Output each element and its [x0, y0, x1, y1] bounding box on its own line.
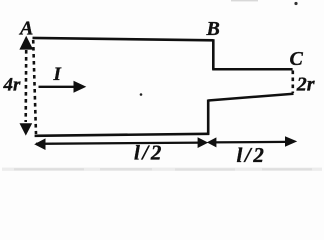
scan streak band bottom [2, 168, 322, 171]
wire: dashed left end face at A [33, 40, 36, 134]
svg-text:4r: 4r [3, 75, 22, 96]
wire: narrow-section top edge B to C [212, 68, 292, 71]
wire: step-down vertical at B [212, 39, 215, 69]
svg-text:l/2: l/2 [237, 143, 267, 167]
current arrow I head [74, 81, 87, 93]
4r dimension dashed line [24, 50, 27, 122]
stray dot (scan artifact) top right [294, 2, 297, 5]
svg-text:C: C [290, 48, 304, 70]
svg-text:I: I [53, 64, 62, 85]
svg-text:B: B [206, 18, 220, 40]
l/2 dimension right, right arrowhead [285, 136, 297, 147]
wire: step-up vertical (bottom) [207, 100, 210, 135]
4r dimension up arrowhead [19, 36, 33, 50]
svg-text:l/2: l/2 [134, 141, 164, 165]
l/2 dimension left, right arrowhead [198, 137, 209, 148]
current arrow I shaft [39, 86, 76, 88]
l/2 dimension left, left arrowhead [34, 138, 45, 150]
l/2 dimension right, left arrowhead [207, 137, 217, 147]
scan smudge top edge [231, 0, 258, 1]
svg-text:2r: 2r [296, 74, 315, 96]
4r dimension down arrowhead [20, 123, 33, 135]
wire: bottom edge of wide section [35, 134, 210, 136]
l/2 dimension right shaft [210, 141, 286, 144]
stray dot (scan artifact) mid figure [140, 93, 143, 96]
l/2 dimension left shaft [36, 143, 206, 144]
wire: narrow-section bottom edge [208, 94, 293, 101]
svg-text:A: A [18, 18, 33, 40]
wire: top edge A to B [33, 38, 214, 40]
scan streak dashes bottom [14, 168, 84, 170]
wire: dashed right end face at C [291, 71, 294, 94]
